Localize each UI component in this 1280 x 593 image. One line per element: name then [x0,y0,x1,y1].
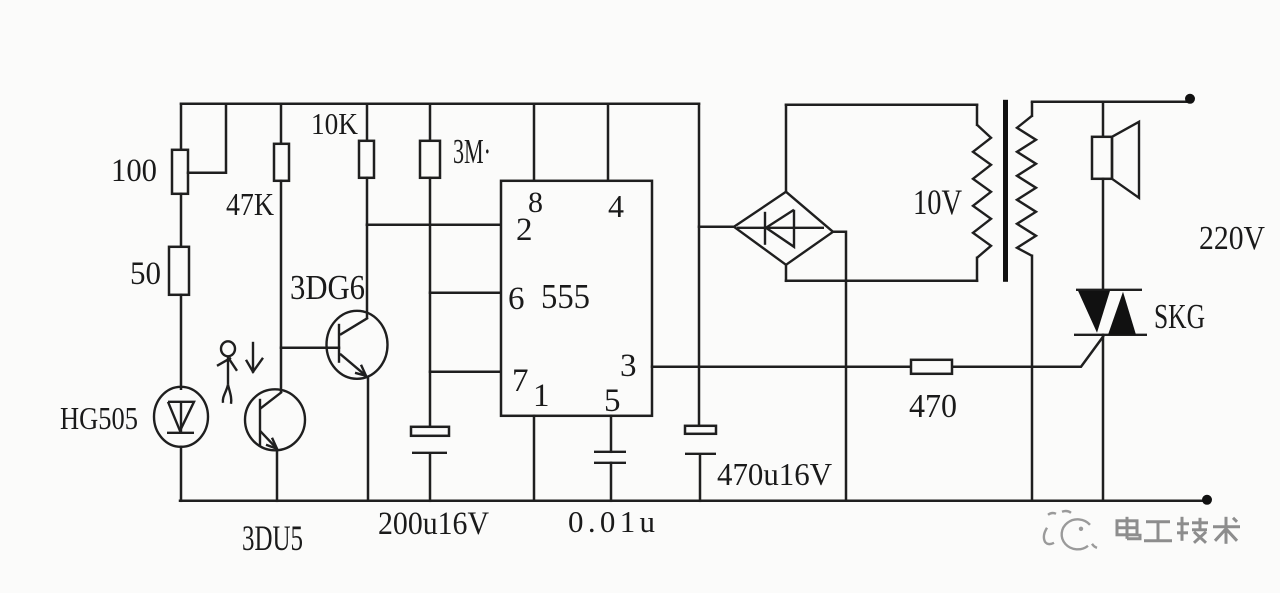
wire 47K branch from rail [280,104,283,144]
wire base of 3DG6 [281,347,339,350]
svg-text:220V: 220V [1199,220,1265,257]
light arrow [246,342,263,373]
svg-text:7: 7 [512,363,529,399]
svg-text:HG505: HG505 [60,400,138,436]
wire 3DG6 emitter to bottom rail [367,379,370,501]
stick person [217,341,237,404]
wire pin2 horizontal [367,224,501,227]
resistor 50 [169,247,189,295]
wire right rail down from top [698,104,701,427]
wire top rail right segment [786,104,977,107]
wire left rail vertical [180,104,183,150]
wire pin7 horizontal [430,371,501,374]
capacitor 200u16V [411,427,449,453]
transistor 3DG6 [327,311,388,379]
resistor 10K [359,141,374,178]
wire 3M down to cap 200u [429,178,432,427]
IC U1 555 timer [501,181,652,416]
photodiode HG505 [154,387,208,447]
wire bridge bottom to primary [786,280,977,283]
svg-text:1: 1 [533,378,550,414]
wire pin 4 to rail [607,104,610,181]
wire tap from resistor 100 [188,104,226,173]
svg-text:3M·: 3M· [453,132,491,171]
svg-text:6: 6 [508,281,525,317]
svg-text:555: 555 [541,277,590,316]
wire triac to bottom rail [1102,335,1105,501]
wire photodiode to bottom rail [180,447,183,501]
watermark logo [1044,511,1097,549]
svg-text:SKG: SKG [1154,297,1205,336]
wire 3DU5 emitter to bottom rail [276,450,279,501]
wire pin 3 output [652,366,911,369]
svg-text:4: 4 [608,188,624,224]
transformer secondary [1017,103,1036,501]
watermark text dian gong ji shu [1117,517,1240,544]
svg-text:50: 50 [130,256,161,292]
wire triac gate [952,337,1103,367]
wire collector of 3DG6 [366,225,369,318]
resistor 470 [911,360,952,374]
capacitor 0.01u [594,452,626,463]
wire bottom rail [180,500,1208,503]
svg-text:470u16V: 470u16V [717,456,832,492]
capacitor 470u16V [685,426,716,454]
wire pin 8 to rail [533,104,536,181]
wire 470u to bottom rail [699,456,702,501]
resistor 47K [274,144,289,181]
resistor 100 [172,150,188,194]
wire between 100 and 50 [180,194,183,247]
transformer primary 10V [973,105,991,281]
wire 3M branch from rail [429,104,432,141]
svg-text:47K: 47K [226,186,274,222]
wire top rail left segment [181,103,699,106]
wire pin 5 to cap [610,416,613,452]
wire bridge bottom vertex [785,265,788,281]
svg-text:3: 3 [620,348,637,384]
wire 0.01u to bottom rail [610,463,613,501]
svg-text:10K: 10K [311,106,359,141]
transformer core [1003,100,1008,282]
svg-text:2: 2 [516,212,533,248]
wire pin6 horizontal [430,292,501,295]
svg-text:470: 470 [909,388,957,425]
svg-text:3DG6: 3DG6 [290,268,365,307]
svg-text:0.01u: 0.01u [568,504,655,539]
wire secondary top rail [1032,101,1190,104]
wire 200u to bottom rail [429,454,432,501]
resistor 3M [420,141,440,178]
wire 47K to 3DU5 [280,181,283,391]
phototransistor 3DU5 [245,389,305,450]
triac SKG [1074,290,1147,335]
speaker [1092,102,1139,291]
node 220V top terminal [1185,94,1195,104]
wire bridge right vertex [833,232,846,501]
wire bridge top vertex to rail2 [785,105,788,192]
wire 10K to collector node [366,178,369,225]
svg-text:3DU5: 3DU5 [242,518,303,558]
wire bridge left [699,226,734,229]
bridge rectifier [734,192,833,265]
wire 50 to photodiode [180,295,183,389]
svg-text:200u16V: 200u16V [378,506,489,542]
svg-text:100: 100 [111,153,157,189]
node 220V bottom terminal [1202,495,1212,505]
svg-text:10V: 10V [913,182,962,222]
wire pin 1 to bottom rail [533,416,536,501]
wire 10K branch from rail [366,104,369,141]
svg-text:5: 5 [604,383,621,419]
